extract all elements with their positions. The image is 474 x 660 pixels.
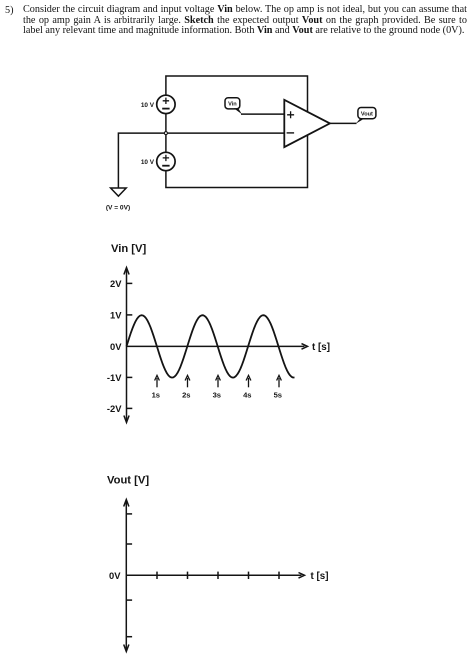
- Vin graph t-axis: [127, 344, 308, 350]
- svg-text:(V = 0V): (V = 0V): [106, 205, 130, 212]
- Vout graph y-axis: [124, 500, 129, 652]
- svg-text:-1V: -1V: [107, 372, 122, 383]
- Vin y-axis ticks: [127, 283, 133, 408]
- svg-text:5s: 5s: [274, 391, 282, 400]
- svg-text:1s: 1s: [152, 391, 160, 400]
- wire: V2 negative terminal to op-amp V- supply (bottom rail): [166, 135, 308, 188]
- Vin y-axis labels: [107, 278, 122, 414]
- problem number: [5, 5, 14, 16]
- svg-text:10 V: 10 V: [141, 159, 155, 166]
- svg-text:t [s]: t [s]: [312, 342, 330, 353]
- op-amp U1: [284, 100, 330, 147]
- ground symbol: [111, 188, 127, 196]
- Vout t-axis ticks: [157, 572, 279, 579]
- svg-text:t [s]: t [s]: [311, 571, 329, 582]
- wire: middle node to op-amp inverting input: [166, 132, 284, 134]
- svg-text:1V: 1V: [110, 309, 122, 320]
- wire: V1 negative terminal to middle node to V2 positive terminal: [165, 114, 167, 153]
- Vin graph y-axis: [124, 268, 129, 423]
- voltage source V2 (bottom 10 V source): [157, 152, 175, 170]
- svg-text:-2V: -2V: [107, 403, 122, 414]
- svg-text:Vout: Vout: [361, 111, 373, 117]
- op-amp noninverting input + mark: [287, 111, 294, 118]
- svg-text:10 V: 10 V: [141, 102, 155, 109]
- voltage source V1 (top 10 V source): [157, 95, 175, 113]
- callout: Vout label box: [356, 108, 376, 124]
- time labels 1s-5s: [152, 391, 282, 400]
- node: middle junction between V1 and V2: [164, 132, 167, 135]
- svg-text:Vout [V]: Vout [V]: [107, 475, 149, 487]
- callout: Vin label box: [225, 98, 242, 114]
- svg-text:2V: 2V: [110, 278, 122, 289]
- wire: middle node to ground drop: [118, 133, 165, 188]
- op-amp inverting input - mark: [287, 132, 295, 134]
- time marker arrows 1s-5s under Vin axis: [155, 375, 282, 387]
- svg-text:4s: 4s: [243, 391, 251, 400]
- wire: V1 positive terminal to op-amp V+ supply (top rail): [166, 76, 308, 113]
- wire: op-amp output to Vout: [330, 122, 357, 124]
- svg-text:0V: 0V: [109, 570, 121, 581]
- svg-text:2s: 2s: [182, 391, 190, 400]
- Vin sine wave: [127, 315, 295, 377]
- problem statement paragraph: [23, 5, 467, 37]
- svg-text:Vin [V]: Vin [V]: [111, 243, 146, 255]
- svg-text:Vin: Vin: [228, 102, 237, 108]
- Vout y-axis ticks: [126, 514, 132, 637]
- Vout graph t-axis: [126, 573, 304, 579]
- svg-text:3s: 3s: [213, 391, 221, 400]
- wire: Vin source to op-amp noninverting input: [241, 113, 284, 115]
- svg-text:0V: 0V: [110, 341, 122, 352]
